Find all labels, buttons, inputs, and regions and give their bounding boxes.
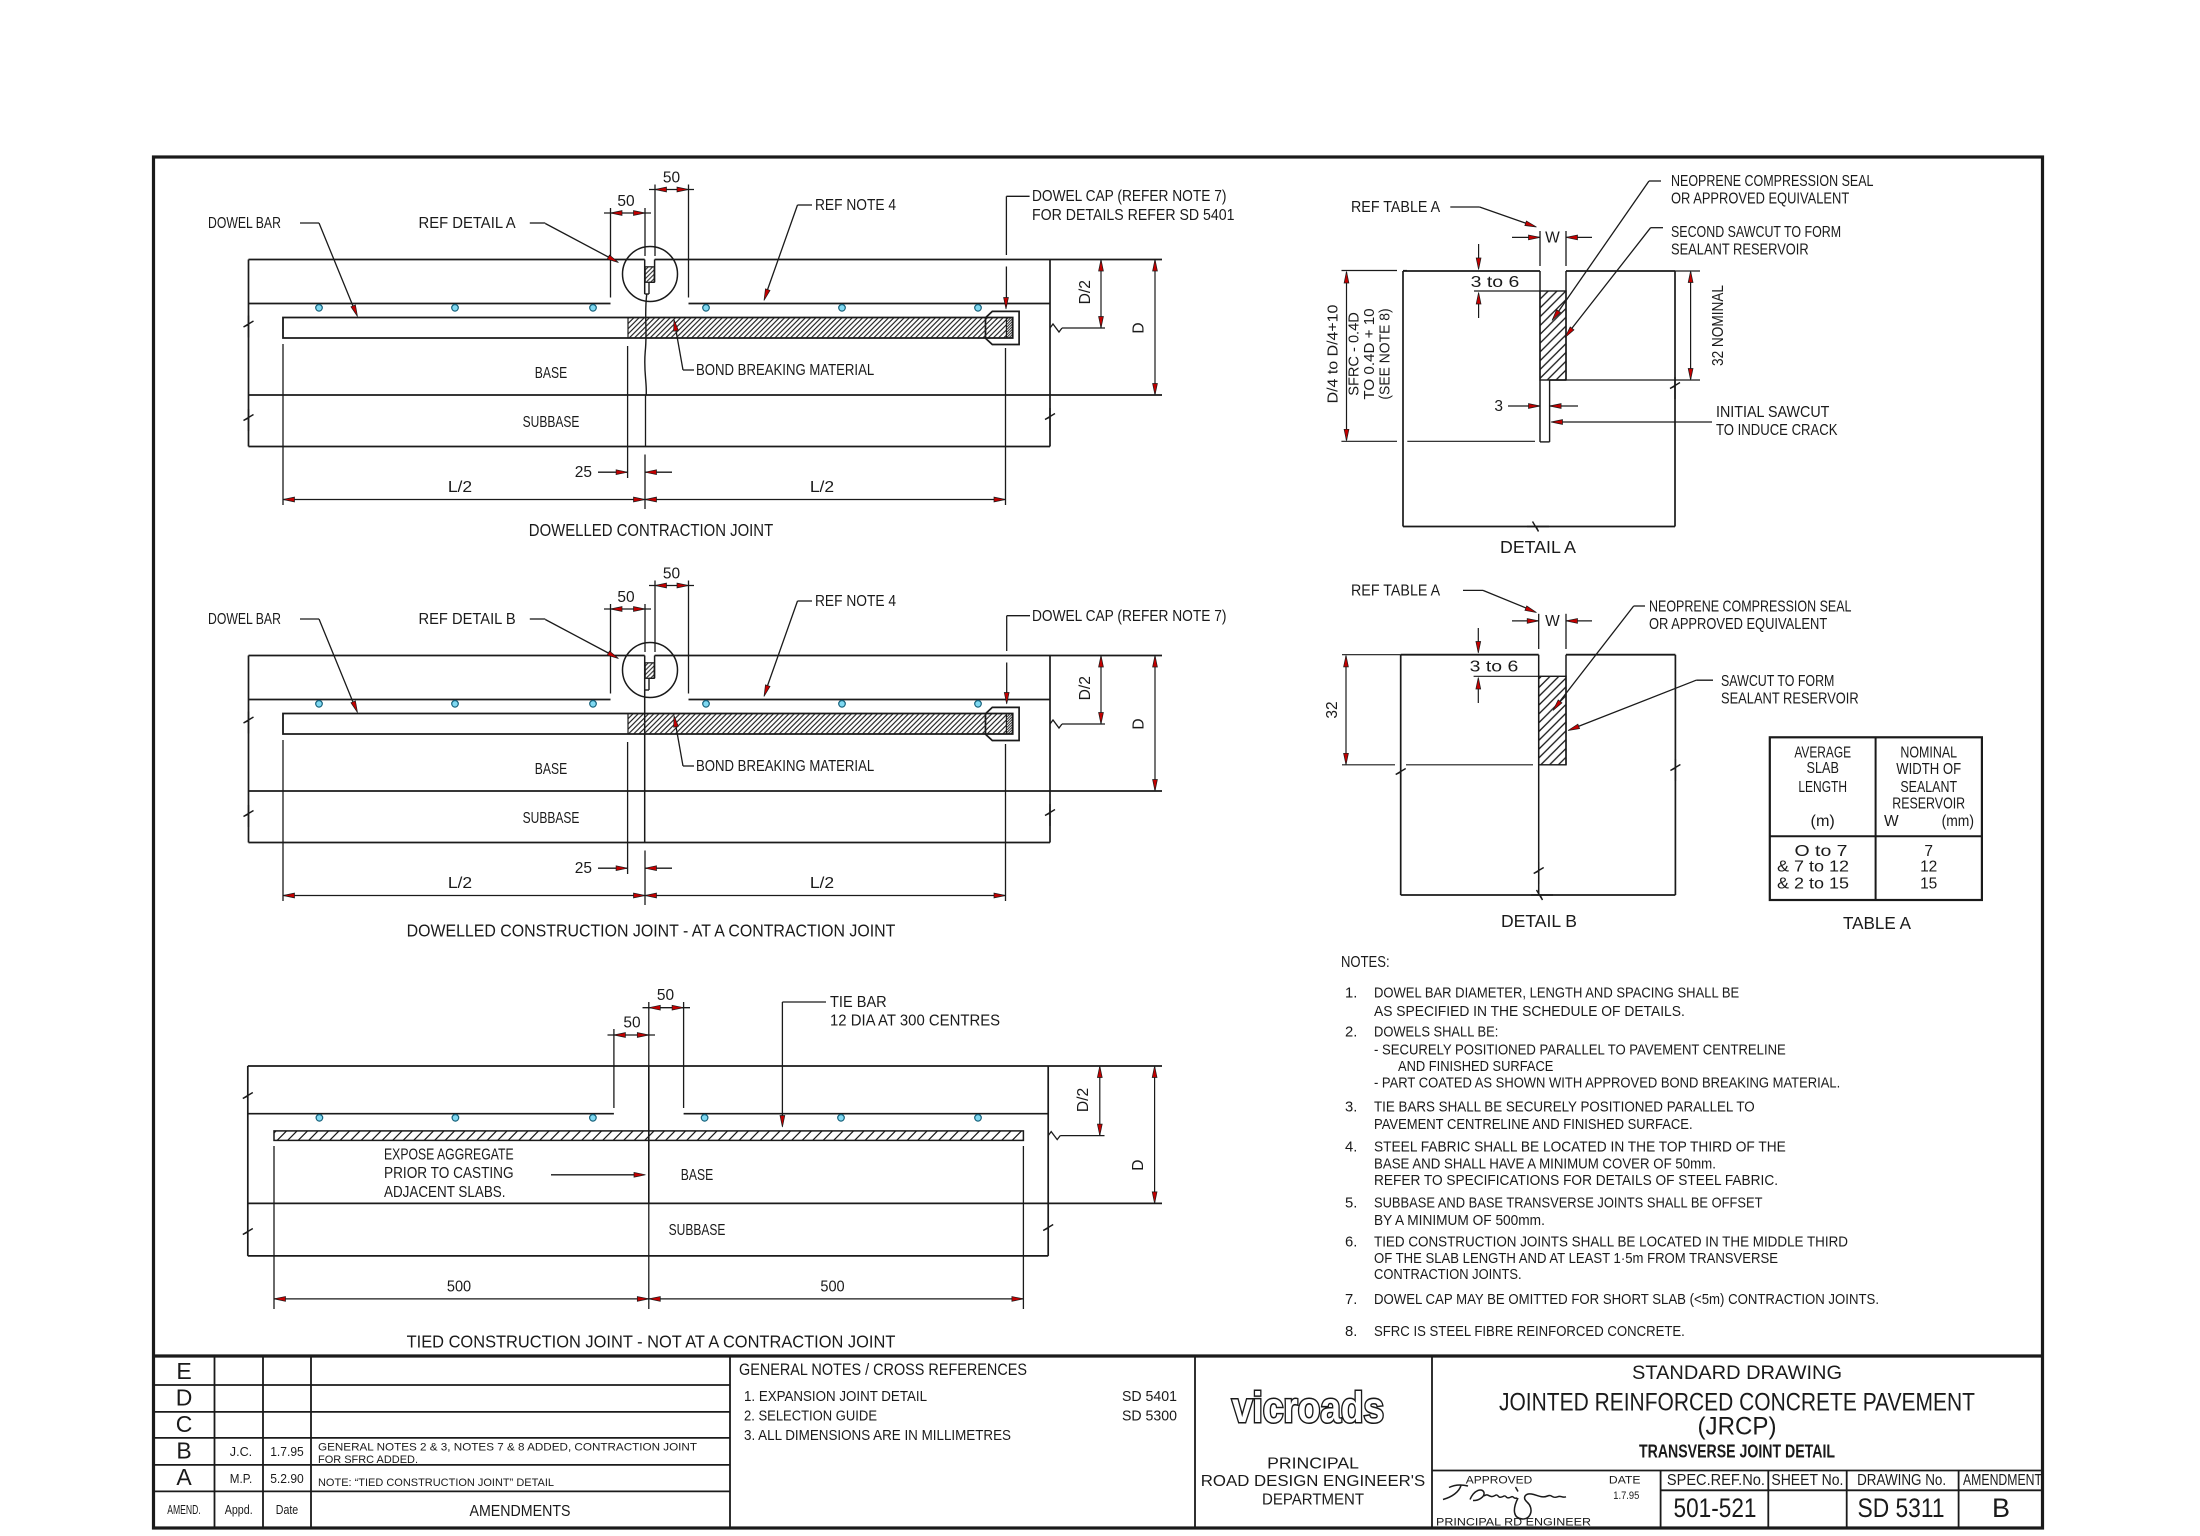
svg-text:REF DETAIL A: REF DETAIL A [419, 215, 517, 232]
svg-text:AMEND.: AMEND. [167, 1503, 201, 1517]
svg-text:50: 50 [663, 566, 681, 583]
svg-text:NOTES:: NOTES: [1341, 954, 1390, 971]
svg-text:500: 500 [820, 1279, 845, 1296]
svg-text:TO INDUCE CRACK: TO INDUCE CRACK [1716, 422, 1838, 439]
svg-text:AND FINISHED SURFACE: AND FINISHED SURFACE [1398, 1059, 1554, 1075]
svg-text:SFRC - 0.4D: SFRC - 0.4D [1347, 312, 1363, 396]
svg-text:DOWELS SHALL BE:: DOWELS SHALL BE: [1374, 1024, 1498, 1040]
svg-text:D/2: D/2 [1077, 280, 1094, 304]
svg-text:D/2: D/2 [1075, 1088, 1092, 1112]
svg-text:32 NOMINAL: 32 NOMINAL [1710, 285, 1727, 366]
svg-text:J.C.: J.C. [230, 1445, 252, 1459]
svg-text:DOWEL BAR DIAMETER, LENGTH AND: DOWEL BAR DIAMETER, LENGTH AND SPACING S… [1374, 986, 1739, 1002]
svg-text:EXPOSE AGGREGATE: EXPOSE AGGREGATE [384, 1147, 514, 1164]
svg-text:4.: 4. [1345, 1139, 1357, 1155]
svg-text:12 DIA AT 300 CENTRES: 12 DIA AT 300 CENTRES [830, 1013, 1000, 1030]
svg-text:D: D [1130, 1160, 1147, 1171]
svg-text:SD 5300: SD 5300 [1122, 1408, 1177, 1425]
svg-text:DETAIL A: DETAIL A [1500, 537, 1576, 557]
svg-text:(mm): (mm) [1942, 813, 1974, 830]
svg-text:& 2 to 15: & 2 to 15 [1777, 876, 1849, 893]
svg-text:50: 50 [663, 170, 681, 187]
svg-text:REF NOTE 4: REF NOTE 4 [815, 593, 896, 610]
svg-text:STANDARD DRAWING: STANDARD DRAWING [1632, 1362, 1842, 1384]
svg-text:GENERAL NOTES 2 & 3, NOTES 7 &: GENERAL NOTES 2 & 3, NOTES 7 & 8 ADDED, … [318, 1442, 697, 1454]
svg-text:- PART COATED AS SHOWN WITH AP: - PART COATED AS SHOWN WITH APPROVED BON… [1374, 1076, 1840, 1092]
svg-text:BASE: BASE [535, 761, 567, 778]
svg-text:50: 50 [617, 589, 635, 606]
svg-text:501-521: 501-521 [1674, 1493, 1757, 1523]
svg-text:E: E [176, 1358, 191, 1384]
svg-text:L/2: L/2 [448, 479, 472, 496]
svg-text:DETAIL B: DETAIL B [1501, 911, 1577, 931]
svg-text:PRINCIPAL: PRINCIPAL [1267, 1456, 1359, 1473]
svg-text:SUBBASE AND BASE TRANSVERSE JO: SUBBASE AND BASE TRANSVERSE JOINTS SHALL… [1374, 1196, 1763, 1212]
svg-text:AS SPECIFIED IN THE SCHEDULE O: AS SPECIFIED IN THE SCHEDULE OF DETAILS. [1374, 1004, 1685, 1020]
svg-text:TIE BAR: TIE BAR [830, 994, 887, 1011]
svg-text:SECOND SAWCUT TO FORM: SECOND SAWCUT TO FORM [1671, 224, 1841, 241]
svg-text:SEALANT: SEALANT [1900, 779, 1957, 796]
svg-text:PAVEMENT CENTRELINE AND FINISH: PAVEMENT CENTRELINE AND FINISHED SURFACE… [1374, 1117, 1693, 1133]
svg-text:SEALANT RESERVOIR: SEALANT RESERVOIR [1671, 242, 1809, 259]
svg-text:GENERAL NOTES / CROSS REFERENC: GENERAL NOTES / CROSS REFERENCES [739, 1361, 1027, 1379]
svg-text:NEOPRENE COMPRESSION SEAL: NEOPRENE COMPRESSION SEAL [1671, 173, 1874, 190]
svg-text:PRIOR TO CASTING: PRIOR TO CASTING [384, 1165, 514, 1182]
svg-text:AVERAGE: AVERAGE [1794, 745, 1851, 762]
svg-text:DOWEL BAR: DOWEL BAR [208, 215, 281, 232]
svg-text:NEOPRENE COMPRESSION SEAL: NEOPRENE COMPRESSION SEAL [1649, 599, 1852, 616]
svg-text:CONTRACTION JOINTS.: CONTRACTION JOINTS. [1374, 1267, 1522, 1283]
svg-text:SUBBASE: SUBBASE [523, 414, 580, 431]
svg-text:5.2.90: 5.2.90 [270, 1472, 304, 1486]
svg-text:SLAB: SLAB [1807, 760, 1839, 777]
svg-text:DRAWING No.: DRAWING No. [1857, 1472, 1946, 1489]
svg-text:& 7 to 12: & 7 to 12 [1777, 859, 1849, 876]
svg-text:L/2: L/2 [810, 479, 834, 496]
svg-text:SD 5311: SD 5311 [1858, 1493, 1945, 1523]
svg-text:DOWEL CAP (REFER NOTE 7): DOWEL CAP (REFER NOTE 7) [1032, 608, 1226, 625]
svg-text:(m): (m) [1811, 813, 1835, 830]
svg-text:7: 7 [1924, 843, 1933, 860]
svg-text:APPROVED: APPROVED [1466, 1475, 1533, 1487]
svg-text:NOMINAL: NOMINAL [1900, 745, 1957, 762]
svg-text:REF TABLE A: REF TABLE A [1351, 583, 1441, 600]
svg-text:BASE: BASE [535, 365, 567, 382]
svg-text:TIED CONSTRUCTION JOINT - NOT: TIED CONSTRUCTION JOINT - NOT AT A CONTR… [407, 1332, 896, 1352]
svg-text:5.: 5. [1345, 1196, 1357, 1212]
svg-text:SFRC IS STEEL FIBRE REINFORCED: SFRC IS STEEL FIBRE REINFORCED CONCRETE. [1374, 1324, 1685, 1340]
svg-text:12: 12 [1920, 859, 1937, 876]
svg-text:SEALANT RESERVOIR: SEALANT RESERVOIR [1721, 691, 1859, 708]
svg-text:INITIAL SAWCUT: INITIAL SAWCUT [1716, 404, 1830, 421]
svg-text:L/2: L/2 [810, 875, 834, 892]
svg-text:M.P.: M.P. [230, 1472, 252, 1486]
svg-text:DOWEL CAP (REFER NOTE 7): DOWEL CAP (REFER NOTE 7) [1032, 188, 1226, 205]
svg-text:2.: 2. [1345, 1024, 1357, 1040]
svg-text:W: W [1884, 813, 1899, 830]
svg-text:A: A [176, 1464, 192, 1490]
svg-text:DOWELLED CONSTRUCTION JOINT -: DOWELLED CONSTRUCTION JOINT - AT A CONTR… [407, 921, 896, 941]
svg-text:C: C [176, 1411, 193, 1437]
svg-text:D: D [1131, 718, 1148, 729]
svg-text:DOWEL BAR: DOWEL BAR [208, 611, 281, 628]
svg-text:1.7.95: 1.7.95 [1613, 1490, 1639, 1502]
svg-text:W: W [1545, 230, 1560, 247]
svg-text:SAWCUT TO FORM: SAWCUT TO FORM [1721, 673, 1834, 690]
svg-text:DOWEL CAP MAY BE OMITTED FOR S: DOWEL CAP MAY BE OMITTED FOR SHORT SLAB … [1374, 1292, 1879, 1308]
svg-text:7.: 7. [1345, 1292, 1357, 1308]
svg-text:BASE AND SHALL HAVE A MINIMUM: BASE AND SHALL HAVE A MINIMUM COVER OF 5… [1374, 1157, 1716, 1173]
svg-text:ROAD DESIGN ENGINEER'S: ROAD DESIGN ENGINEER'S [1201, 1473, 1425, 1490]
svg-text:LENGTH: LENGTH [1798, 779, 1847, 796]
svg-text:L/2: L/2 [448, 875, 472, 892]
svg-text:3: 3 [1494, 398, 1503, 415]
svg-text:(SEE NOTE 8): (SEE NOTE 8) [1378, 308, 1394, 399]
svg-text:15: 15 [1920, 876, 1937, 893]
svg-text:BOND BREAKING MATERIAL: BOND BREAKING MATERIAL [696, 758, 875, 775]
svg-text:BY A MINIMUM OF 500mm.: BY A MINIMUM OF 500mm. [1374, 1213, 1545, 1229]
svg-text:BOND BREAKING MATERIAL: BOND BREAKING MATERIAL [696, 362, 875, 379]
svg-text:FOR DETAILS REFER SD 5401: FOR DETAILS REFER SD 5401 [1032, 207, 1235, 224]
svg-text:SUBBASE: SUBBASE [669, 1222, 726, 1239]
svg-text:1.7.95: 1.7.95 [270, 1445, 304, 1459]
svg-text:ADJACENT SLABS.: ADJACENT SLABS. [384, 1184, 506, 1201]
svg-text:25: 25 [575, 860, 592, 877]
svg-text:Date: Date [276, 1503, 298, 1517]
svg-text:- SECURELY POSITIONED PARALLEL: - SECURELY POSITIONED PARALLEL TO PAVEME… [1374, 1043, 1786, 1059]
svg-text:SHEET No.: SHEET No. [1771, 1472, 1843, 1489]
svg-text:6.: 6. [1345, 1234, 1357, 1250]
svg-text:vicroads: vicroads [1232, 1384, 1384, 1432]
svg-text:SUBBASE: SUBBASE [523, 810, 580, 827]
svg-text:W: W [1545, 613, 1560, 630]
svg-text:1.: 1. [1345, 986, 1357, 1002]
svg-text:500: 500 [447, 1279, 472, 1296]
svg-text:O to 7: O to 7 [1795, 843, 1848, 860]
svg-text:50: 50 [657, 987, 675, 1004]
svg-text:AMENDMENT: AMENDMENT [1963, 1472, 2042, 1489]
svg-text:REF DETAIL B: REF DETAIL B [419, 611, 516, 628]
svg-text:DATE: DATE [1609, 1475, 1641, 1487]
svg-text:50: 50 [623, 1015, 641, 1032]
svg-text:REF NOTE 4: REF NOTE 4 [815, 197, 896, 214]
svg-text:D/2: D/2 [1077, 676, 1094, 700]
svg-text:SPEC.REF.No.: SPEC.REF.No. [1667, 1472, 1765, 1489]
svg-text:D: D [176, 1385, 193, 1411]
svg-text:TIED CONSTRUCTION JOINTS SHALL: TIED CONSTRUCTION JOINTS SHALL BE LOCATE… [1374, 1234, 1848, 1250]
svg-text:DOWELLED CONTRACTION JOINT: DOWELLED CONTRACTION JOINT [529, 520, 774, 540]
svg-text:3.: 3. [1345, 1100, 1357, 1116]
svg-text:D: D [1131, 322, 1148, 333]
svg-text:RESERVOIR: RESERVOIR [1892, 796, 1965, 813]
svg-text:3 to 6: 3 to 6 [1471, 274, 1520, 291]
svg-text:3. ALL DIMENSIONS ARE IN MILLI: 3. ALL DIMENSIONS ARE IN MILLIMETRES [744, 1427, 1011, 1444]
svg-text:OR APPROVED EQUIVALENT: OR APPROVED EQUIVALENT [1649, 616, 1828, 633]
svg-text:B: B [1992, 1493, 2010, 1523]
svg-text:OR APPROVED EQUIVALENT: OR APPROVED EQUIVALENT [1671, 191, 1850, 208]
svg-text:TO 0.4D + 10: TO 0.4D + 10 [1362, 308, 1378, 399]
svg-text:(JRCP): (JRCP) [1698, 1413, 1777, 1441]
svg-text:OF THE SLAB LENGTH AND AT LEAS: OF THE SLAB LENGTH AND AT LEAST 1·5m FRO… [1374, 1251, 1778, 1267]
svg-text:DEPARTMENT: DEPARTMENT [1262, 1492, 1364, 1509]
svg-text:2. SELECTION GUIDE: 2. SELECTION GUIDE [744, 1408, 877, 1425]
svg-text:FOR SFRC ADDED.: FOR SFRC ADDED. [318, 1454, 418, 1466]
svg-text:B: B [176, 1438, 191, 1464]
svg-text:50: 50 [617, 193, 635, 210]
svg-text:AMENDMENTS: AMENDMENTS [470, 1503, 571, 1520]
svg-text:STEEL FABRIC SHALL BE LOCATED: STEEL FABRIC SHALL BE LOCATED IN THE TOP… [1374, 1139, 1786, 1155]
svg-text:TRANSVERSE JOINT DETAIL: TRANSVERSE JOINT DETAIL [1639, 1441, 1835, 1462]
svg-text:TABLE A: TABLE A [1843, 913, 1911, 933]
svg-text:Appd.: Appd. [225, 1503, 253, 1517]
svg-text:REF TABLE A: REF TABLE A [1351, 199, 1441, 216]
svg-text:8.: 8. [1345, 1324, 1357, 1340]
svg-text:TIE BARS SHALL BE SECURELY POS: TIE BARS SHALL BE SECURELY POSITIONED PA… [1374, 1100, 1755, 1116]
svg-text:REFER TO SPECIFICATIONS FOR DE: REFER TO SPECIFICATIONS FOR DETAILS OF S… [1374, 1173, 1778, 1189]
svg-text:WIDTH OF: WIDTH OF [1896, 761, 1961, 778]
svg-text:1. EXPANSION JOINT DETAIL: 1. EXPANSION JOINT DETAIL [744, 1388, 927, 1405]
svg-text:NOTE: “TIED CONSTRUCTION JOINT: NOTE: “TIED CONSTRUCTION JOINT” DETAIL [318, 1477, 554, 1489]
svg-text:SD 5401: SD 5401 [1122, 1388, 1177, 1405]
svg-text:D/4 to D/4+10: D/4 to D/4+10 [1326, 305, 1342, 404]
svg-text:3 to 6: 3 to 6 [1470, 659, 1519, 676]
svg-text:25: 25 [575, 464, 592, 481]
svg-text:BASE: BASE [681, 1167, 713, 1184]
svg-text:PRINCIPAL RD ENGINEER: PRINCIPAL RD ENGINEER [1436, 1517, 1591, 1529]
svg-text:32: 32 [1324, 701, 1341, 718]
